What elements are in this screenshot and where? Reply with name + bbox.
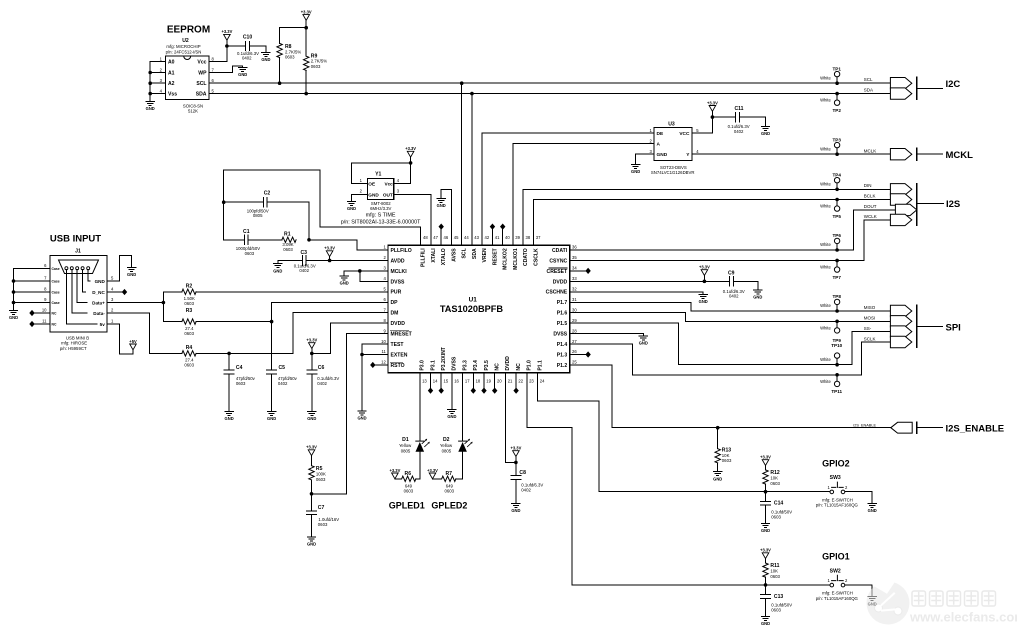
- svg-text:Case: Case: [52, 267, 60, 271]
- svg-text:CDATI: CDATI: [552, 248, 568, 254]
- svg-text:DOUT: DOUT: [864, 204, 877, 209]
- resistor R5 100K: [309, 456, 326, 494]
- svg-text:mfg: S TIME: mfg: S TIME: [366, 213, 396, 219]
- power +3.3V R6: [389, 468, 400, 479]
- svg-text:10K: 10K: [770, 476, 778, 481]
- junction dot TP1: [835, 81, 839, 85]
- svg-text:C9: C9: [728, 270, 735, 276]
- svg-text:I2C: I2C: [946, 79, 961, 90]
- svg-text:AVDD: AVDD: [391, 258, 405, 264]
- wire DVSS pin28 to ground: [570, 334, 644, 336]
- svg-text:44: 44: [464, 235, 469, 240]
- svg-text:18: 18: [476, 378, 481, 383]
- wire net SCL drop to pin44: [461, 83, 463, 245]
- svg-text:0402: 0402: [278, 381, 288, 386]
- junction dot R12/C14/GPIO2: [764, 490, 768, 494]
- svg-text:0402: 0402: [521, 487, 531, 492]
- wire net MCLK from U3 Y to MCKL connector: [692, 153, 890, 155]
- junction dot TP5: [835, 198, 839, 202]
- eeprom U2: [160, 38, 215, 114]
- svg-text:SW2: SW2: [830, 568, 841, 574]
- svg-text:NC: NC: [495, 363, 501, 371]
- svg-text:White: White: [820, 242, 831, 247]
- svg-text:SS-: SS-: [864, 326, 872, 331]
- svg-text:37: 37: [536, 235, 541, 240]
- ground C9: [753, 290, 762, 300]
- svg-text:mfg: HIROSE: mfg: HIROSE: [61, 341, 87, 346]
- svg-text:Y1: Y1: [375, 171, 381, 177]
- svg-text:15: 15: [444, 378, 449, 383]
- svg-text:48: 48: [423, 235, 428, 240]
- wire DVSS pin16 to ground: [451, 373, 453, 410]
- resistor R4 27.4: [182, 345, 293, 368]
- power +3.3V R5: [306, 445, 317, 456]
- svg-text:VCC: VCC: [679, 131, 690, 137]
- svg-text:P1.3: P1.3: [557, 352, 568, 358]
- wire P1.3 stub pin26: [570, 354, 586, 356]
- svg-text:P1.0: P1.0: [527, 360, 533, 371]
- ground Y1: [347, 201, 356, 211]
- svg-text:Case: Case: [52, 280, 60, 284]
- svg-text:C6: C6: [318, 365, 325, 371]
- svg-text:33: 33: [572, 276, 577, 281]
- svg-text:0603: 0603: [770, 574, 780, 579]
- power +5V USB: [129, 339, 137, 350]
- svg-text:P1.6: P1.6: [557, 311, 568, 317]
- svg-text:P3.3: P3.3: [462, 360, 468, 371]
- switch SW3: [816, 475, 859, 507]
- svg-text:32: 32: [572, 287, 577, 292]
- junction dot TP11: [835, 373, 839, 377]
- svg-text:White: White: [820, 379, 831, 384]
- no-connect diamond P3.4 pin18: [472, 373, 474, 388]
- svg-text:TAS1020BPFB: TAS1020BPFB: [440, 304, 504, 314]
- wire U2 WP to ground: [209, 66, 243, 73]
- switch SW2: [816, 568, 859, 600]
- svg-text:Case: Case: [52, 301, 60, 305]
- svg-text:0603: 0603: [770, 481, 780, 486]
- svg-text:P1.7: P1.7: [557, 300, 568, 306]
- connector J1 USB: [42, 249, 114, 352]
- junction dot C8/+3.3V: [514, 461, 518, 465]
- svg-text:38: 38: [526, 235, 531, 240]
- svg-text:I2S: I2S: [946, 199, 960, 210]
- junction dot TP10: [835, 363, 839, 367]
- svg-text:I2S_ENABLE: I2S_ENABLE: [946, 423, 1005, 434]
- wire net CSYNC/WCLK from pin35 to I2S connector: [570, 220, 891, 261]
- svg-text:20: 20: [497, 378, 502, 383]
- svg-text:p/n: TL1015AF160QG: p/n: TL1015AF160QG: [816, 503, 859, 508]
- svg-text:U1: U1: [469, 297, 478, 304]
- resistor R8 pull-up SCL: [277, 28, 302, 83]
- svg-text:0603: 0603: [283, 247, 293, 252]
- svg-text:29: 29: [572, 318, 577, 323]
- svg-text:TP11: TP11: [831, 389, 842, 394]
- svg-text:DE: DE: [657, 131, 664, 137]
- svg-text:P3.0: P3.0: [420, 360, 426, 371]
- resistor R9 pull-up SDA: [304, 28, 328, 94]
- svg-text:DVSS: DVSS: [452, 356, 458, 370]
- svg-text:0603: 0603: [236, 381, 246, 386]
- junction dot Data+: [162, 301, 166, 305]
- svg-text:MCLK: MCLK: [864, 149, 877, 154]
- test point TP8: [820, 294, 841, 311]
- svg-text:R1: R1: [284, 231, 291, 237]
- svg-text:27: 27: [572, 339, 577, 344]
- wire J1 D_NC stub: [107, 291, 122, 293]
- svg-text:0603: 0603: [285, 55, 295, 60]
- capacitor C8: [511, 462, 544, 503]
- ground C5: [267, 412, 276, 422]
- svg-text:11: 11: [381, 349, 386, 354]
- wire TEST pin10 and EXTEN pin11 to ground: [362, 344, 388, 411]
- wire node to DM pin: [293, 313, 388, 354]
- wire net SDA from U2 to I2C connector: [209, 93, 890, 95]
- svg-text:mfg: MICROCHIP: mfg: MICROCHIP: [166, 44, 200, 49]
- svg-text:A2: A2: [168, 81, 175, 87]
- test point TP5: [820, 200, 841, 219]
- junction dot TP3: [835, 152, 839, 156]
- svg-text:41: 41: [495, 235, 500, 240]
- svg-text:A: A: [657, 142, 661, 148]
- no-connect diamond J1 D_NC: [122, 289, 127, 295]
- svg-text:TP6: TP6: [832, 233, 841, 238]
- svg-text:DVDD: DVDD: [505, 356, 511, 371]
- svg-text:R7: R7: [445, 471, 452, 477]
- connector MCKL: [890, 148, 973, 161]
- svg-text:P1.1: P1.1: [537, 360, 543, 371]
- svg-text:GPIO1: GPIO1: [822, 552, 850, 562]
- capacitor C3 AVDD decoupling: [278, 250, 388, 273]
- junction dot TEST/EXTEN: [360, 353, 364, 357]
- wire U3 GND pin3 to ground: [636, 154, 654, 164]
- svg-text:White: White: [820, 146, 831, 151]
- junction dot C2 left: [222, 200, 226, 204]
- svg-text:C3: C3: [300, 250, 307, 256]
- wire U3 VCC to +3.3V rail: [692, 117, 712, 133]
- svg-text:RESET: RESET: [492, 247, 498, 265]
- wire J1 5v pin to +5V: [107, 324, 133, 354]
- svg-text:OE: OE: [368, 182, 375, 187]
- svg-text:P1.5: P1.5: [557, 321, 568, 327]
- svg-text:GPLED2: GPLED2: [431, 501, 467, 511]
- svg-text:22: 22: [518, 378, 523, 383]
- power +3.3V EEPROM Vcc: [221, 29, 232, 40]
- svg-text:MCKL: MCKL: [946, 150, 974, 161]
- svg-text:11: 11: [42, 319, 47, 324]
- svg-text:WP: WP: [198, 71, 207, 77]
- ground C8: [511, 504, 520, 514]
- svg-text:TP1: TP1: [832, 66, 841, 71]
- junction dot R8/SCL: [278, 81, 282, 85]
- ground C13: [761, 616, 770, 626]
- wire net I2S_ENABLE from P1.2 to connector: [570, 365, 891, 428]
- resistor R3 27.4: [163, 308, 271, 336]
- watermark elecfans logo: [867, 580, 910, 625]
- wire MCLKI to ground and DVSS: [344, 271, 388, 281]
- svg-text:C5: C5: [279, 365, 286, 371]
- svg-text:SDA: SDA: [864, 88, 873, 93]
- resistor R12 10K: [763, 466, 781, 492]
- svg-text:Yellow: Yellow: [440, 443, 453, 448]
- svg-text:36: 36: [572, 245, 577, 250]
- wire XTALO stub pin46: [440, 229, 442, 245]
- ground C3 left: [273, 264, 282, 274]
- svg-text:P3.4: P3.4: [473, 360, 479, 371]
- wire RSTO stub pin12: [375, 364, 388, 366]
- svg-text:14: 14: [433, 378, 438, 383]
- svg-text:XTALO: XTALO: [441, 248, 447, 265]
- capacitor C1 1000pfd: [224, 229, 282, 256]
- svg-text:MISO: MISO: [864, 305, 876, 310]
- svg-text:512K: 512K: [188, 109, 198, 114]
- svg-text:CSYNC: CSYNC: [549, 258, 567, 264]
- capacitor C14: [761, 492, 793, 524]
- wire RESET stub pin41: [491, 229, 493, 245]
- no-connect diamond NC pin22: [515, 373, 517, 388]
- ground C6: [307, 412, 316, 422]
- svg-text:C10: C10: [243, 35, 253, 41]
- power +3.3V R11: [760, 548, 771, 559]
- wire DVDD pin33 rail: [570, 280, 758, 282]
- svg-text:42: 42: [485, 235, 490, 240]
- svg-text:MCLKO2: MCLKO2: [503, 248, 509, 270]
- wire net DIN from CDATO pin38 to I2S connector: [523, 189, 890, 245]
- svg-text:34: 34: [572, 266, 577, 271]
- svg-text:TP4: TP4: [832, 172, 841, 177]
- svg-text:Yellow: Yellow: [399, 443, 412, 448]
- capacitor C7: [307, 494, 340, 537]
- wire GPIO1 line to SW2: [766, 584, 831, 586]
- wire +3.3V rail to DVDD pin8: [312, 323, 388, 353]
- junction dot TP6: [835, 248, 839, 252]
- svg-text:EXTEN: EXTEN: [391, 352, 408, 358]
- svg-text:GND: GND: [368, 192, 379, 197]
- ground SW3: [868, 504, 877, 514]
- wire MCLKO2 stub pin40: [502, 229, 504, 245]
- svg-text:CSCHNE: CSCHNE: [546, 290, 568, 296]
- ground WP: [238, 68, 247, 78]
- junction dot AVDD: [328, 259, 332, 263]
- ground C11: [761, 127, 770, 137]
- test point TP3: [820, 137, 841, 154]
- svg-text:TP5: TP5: [832, 214, 841, 219]
- junction dot DVDD +3.3V: [703, 280, 707, 284]
- ground C4: [225, 412, 234, 422]
- power +3.3V Y1: [405, 146, 416, 157]
- svg-text:GND: GND: [95, 279, 106, 284]
- wire CSCHNE pin32 to ground: [570, 292, 703, 295]
- svg-text:Data-: Data-: [93, 311, 105, 316]
- capacitor C11: [712, 106, 765, 134]
- wire Y1 GND pin: [352, 195, 368, 202]
- svg-text:24: 24: [540, 378, 545, 383]
- svg-text:p/n: 24FC512-I/SN: p/n: 24FC512-I/SN: [166, 49, 202, 54]
- power +3.3V C8: [510, 446, 521, 457]
- wire P3.3 pin17 to D2: [462, 373, 464, 441]
- svg-text:D_NC: D_NC: [92, 290, 105, 295]
- wire J1 pin10 NC: [35, 312, 51, 314]
- svg-text:J1: J1: [75, 249, 81, 255]
- svg-text:CDATO: CDATO: [523, 248, 529, 266]
- capacitor C4 47pfd: [224, 353, 256, 411]
- svg-text:www.elecfans.com: www.elecfans.com: [909, 610, 1017, 625]
- svg-text:MCLKO1: MCLKO1: [513, 248, 519, 270]
- svg-text:C13: C13: [774, 594, 784, 600]
- wire MRESET pin9 to R5/C7 node: [312, 334, 389, 494]
- junction dot TP9: [835, 320, 839, 324]
- junction dot TP4: [835, 188, 839, 192]
- svg-text:23: 23: [529, 378, 534, 383]
- test point TP10: [820, 343, 843, 365]
- resistor R2 1.50K: [163, 284, 388, 307]
- svg-text:0805: 0805: [401, 449, 411, 454]
- junction dot R5/C7/MRESET: [310, 492, 314, 496]
- oscillator Y1: [341, 171, 421, 225]
- no-connect diamond CRESET: [585, 268, 590, 274]
- svg-text:0603: 0603: [404, 489, 414, 494]
- svg-text:SCL: SCL: [864, 77, 873, 82]
- svg-text:Vcc: Vcc: [197, 60, 206, 66]
- junction dot C6/+3.3V: [310, 352, 314, 356]
- svg-text:0603: 0603: [445, 489, 455, 494]
- test point TP11: [820, 375, 842, 394]
- no-connect diamond P3.1 pin14: [430, 373, 432, 388]
- svg-text:TP3: TP3: [832, 137, 841, 142]
- wire U2 left bus A0-A1-A2-Vss to ground: [150, 62, 165, 102]
- svg-text:16: 16: [454, 378, 459, 383]
- svg-text:BCLK: BCLK: [864, 193, 876, 198]
- svg-text:Vcc: Vcc: [384, 182, 393, 187]
- svg-text:28: 28: [572, 328, 577, 333]
- svg-text:1.0ufd/16V: 1.0ufd/16V: [318, 517, 339, 522]
- junction dot R3/DP/C5 node: [270, 320, 274, 324]
- svg-text:A1: A1: [168, 71, 175, 77]
- svg-text:DM: DM: [391, 311, 399, 317]
- junction dot R4/C4 node: [227, 352, 231, 356]
- junction dot R1/C2: [307, 238, 311, 242]
- capacitor C2 100pfd: [224, 191, 309, 219]
- svg-text:C2: C2: [264, 191, 271, 197]
- svg-text:0603: 0603: [245, 251, 255, 256]
- junction dot SDA drop: [470, 92, 474, 96]
- svg-text:0603: 0603: [311, 64, 321, 69]
- no-connect diamond J1 pin11: [29, 321, 34, 327]
- wire DVDD pin21 to C8 rail: [505, 373, 516, 463]
- svg-text:MOSI: MOSI: [864, 316, 876, 321]
- svg-text:0603: 0603: [318, 522, 328, 527]
- svg-text:Data+: Data+: [92, 300, 105, 305]
- ground U3: [631, 165, 640, 175]
- svg-text:SCL: SCL: [462, 248, 468, 258]
- ground C10: [261, 52, 270, 62]
- svg-text:0805: 0805: [253, 213, 263, 218]
- junction dots J1 bus: [12, 279, 16, 283]
- svg-text:GND: GND: [657, 152, 668, 158]
- junction dot MCLKI/DVSS: [358, 269, 362, 273]
- power +3.3V AVDD: [324, 246, 335, 257]
- wire net Data- down to R4: [107, 313, 182, 353]
- connector I2S: [890, 184, 960, 226]
- svg-text:19: 19: [486, 378, 491, 383]
- wire SW3 to ground: [845, 492, 872, 504]
- wire net SDA drop to pin43: [471, 94, 473, 246]
- wire D2 anode to R7: [456, 452, 463, 479]
- power +3.3V R12: [760, 455, 771, 466]
- svg-text:White: White: [820, 204, 831, 209]
- ground SW2: [868, 597, 877, 607]
- svg-text:CSCLK: CSCLK: [533, 248, 539, 266]
- junction dot R11/C13/GPIO1: [764, 583, 768, 587]
- connector SPI: [890, 305, 960, 347]
- power +3.3V DVDD C6 rail: [306, 338, 317, 349]
- wire PLLFILO to chip pin1: [309, 240, 388, 250]
- junction dot TP2: [835, 92, 839, 96]
- wire P1.0 pin23 to GPIO1 line: [527, 373, 766, 585]
- ground CSCHNE: [699, 295, 708, 305]
- svg-text:40: 40: [505, 235, 510, 240]
- ic U1 TAS1020BPFB: [388, 245, 570, 372]
- no-connect diamond P3.5 pin19: [483, 373, 485, 388]
- power +3.3V U3: [707, 100, 718, 111]
- connector I2S_ENABLE: [891, 422, 1004, 434]
- no-connect diamond NC pin20: [494, 373, 496, 388]
- svg-text:C14: C14: [774, 501, 784, 507]
- svg-text:OUT: OUT: [383, 192, 393, 197]
- junction dot Y1 Vcc rail: [409, 161, 413, 165]
- test point TP7: [820, 260, 841, 279]
- capacitor C6 0.1ufd: [307, 349, 340, 412]
- junction dot U3 VCC: [711, 115, 715, 119]
- svg-text:47: 47: [433, 235, 438, 240]
- svg-text:26: 26: [572, 349, 577, 354]
- svg-text:PLLFILI: PLLFILI: [421, 248, 427, 267]
- svg-text:P3.5: P3.5: [484, 360, 490, 371]
- power +3.3V R8/R9: [301, 9, 312, 20]
- capacitor C10: [227, 35, 266, 61]
- svg-text:TP2: TP2: [832, 108, 841, 113]
- junction dot R13/I2S_ENABLE: [716, 426, 720, 430]
- wire P3.0 pin13 to D1: [419, 373, 421, 441]
- power +3.3V DVDD: [699, 265, 710, 276]
- no-connect diamond MCLKO2: [500, 224, 505, 230]
- svg-text:10: 10: [381, 339, 386, 344]
- capacitor C5 47pfd: [267, 322, 298, 412]
- svg-text:p/n: TL1015AF160QG: p/n: TL1015AF160QG: [816, 596, 859, 601]
- svg-text:13: 13: [422, 378, 427, 383]
- no-connect diamond J1 pin10: [29, 310, 34, 316]
- wire MCLKO1 pin39 to U3 A: [513, 144, 654, 246]
- svg-text:10K: 10K: [770, 569, 778, 574]
- wire net MOSI from P1.6 to SPI connector: [570, 313, 891, 322]
- svg-text:TEST: TEST: [391, 342, 405, 348]
- svg-text:C11: C11: [734, 106, 743, 112]
- svg-text:DIN: DIN: [864, 183, 872, 188]
- svg-text:0402: 0402: [734, 129, 744, 134]
- ground DVSS pin28: [639, 336, 648, 346]
- no-connect diamond P3.2 pin15: [440, 373, 442, 388]
- svg-text:PUR: PUR: [391, 290, 402, 296]
- svg-text:R2: R2: [186, 284, 193, 290]
- svg-text:White: White: [820, 325, 831, 330]
- svg-text:0402: 0402: [242, 56, 252, 61]
- resistor R1 3.09K: [282, 231, 296, 252]
- svg-text:0603: 0603: [771, 515, 781, 520]
- svg-text:R3: R3: [186, 308, 193, 314]
- svg-text:NC: NC: [52, 312, 57, 316]
- capacitor C9: [723, 270, 745, 298]
- svg-text:p/n: SIT8002AI-13-33E-6.00000T: p/n: SIT8002AI-13-33E-6.00000T: [341, 220, 421, 226]
